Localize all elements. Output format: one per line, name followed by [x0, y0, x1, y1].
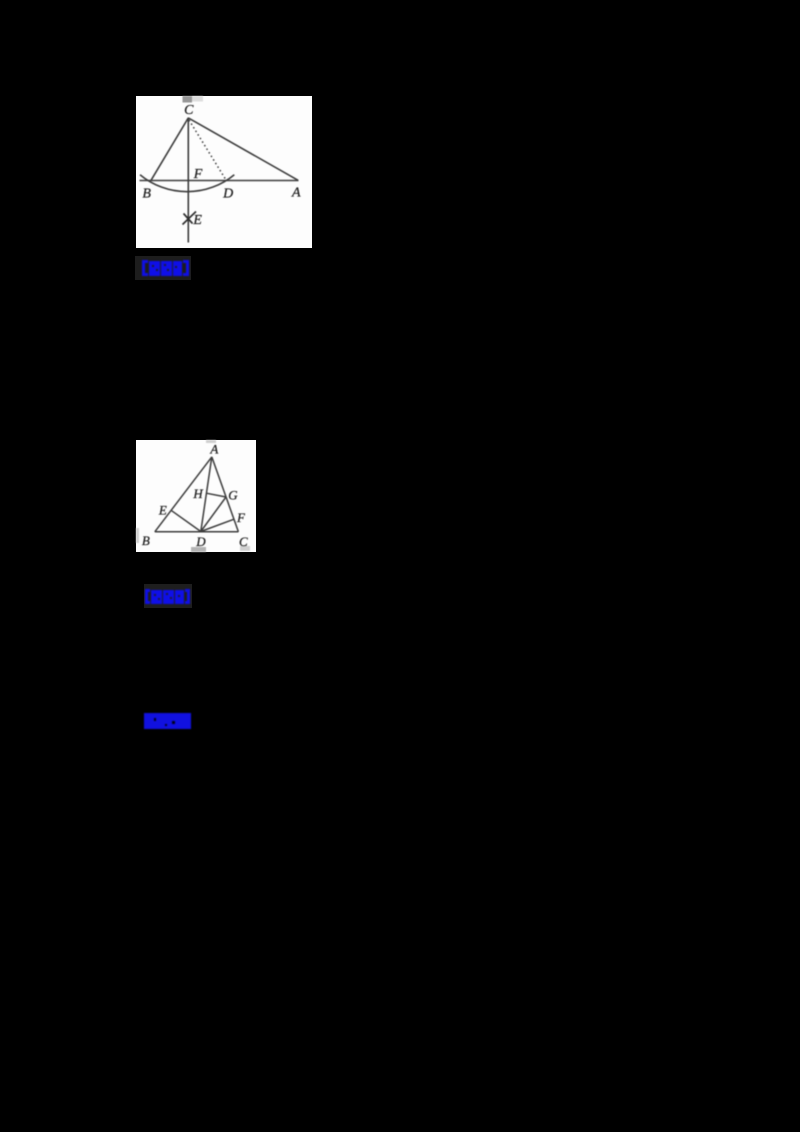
wire: segment H-G — [207, 493, 226, 497]
wire: side C-A — [188, 118, 298, 180]
svg-text:A: A — [291, 186, 301, 201]
wire: base B-C — [155, 531, 239, 533]
svg-text:F: F — [236, 510, 246, 525]
wire: segment D-F — [201, 519, 234, 531]
svg-text:D: D — [222, 187, 233, 202]
X mark at E — [183, 212, 197, 225]
gray smudge top — [183, 96, 204, 103]
arc through B and D centered at C — [140, 175, 234, 192]
svg-text:B: B — [142, 187, 151, 202]
wire: segment E-D — [172, 511, 201, 532]
wire: side A-B — [155, 457, 212, 532]
svg-text:E: E — [158, 503, 167, 518]
svg-text:B: B — [142, 533, 150, 548]
wire: side A-C — [212, 457, 239, 532]
wire: dotted segment C-D — [189, 120, 227, 181]
svg-text:C: C — [239, 534, 248, 549]
gray smudges — [136, 440, 250, 552]
wire: horizontal base line B-A — [140, 180, 299, 182]
svg-text:H: H — [192, 486, 203, 501]
svg-text:E: E — [192, 213, 202, 228]
wire: vertical line through C down to E — [187, 118, 189, 243]
svg-text:A: A — [209, 442, 218, 457]
svg-text:C: C — [184, 103, 194, 118]
svg-text:G: G — [228, 488, 238, 503]
wire: side C-B — [151, 118, 189, 181]
wire: segment D-G — [201, 497, 226, 532]
label 2: blue 【解答】 tag on dark backing — [144, 584, 192, 608]
figure box 2: triangle ABC with cevians — [136, 440, 256, 552]
svg-text:D: D — [195, 534, 206, 549]
label 1: blue 【点评】 tag on dark backing — [135, 256, 191, 280]
figure box 1: construction of perpendicular bisector through C — [136, 96, 312, 248]
svg-text:F: F — [193, 167, 203, 182]
wire: cevian A-D — [201, 457, 212, 532]
label 3: blue 【点评】 tag (nearly solid) — [144, 713, 192, 729]
